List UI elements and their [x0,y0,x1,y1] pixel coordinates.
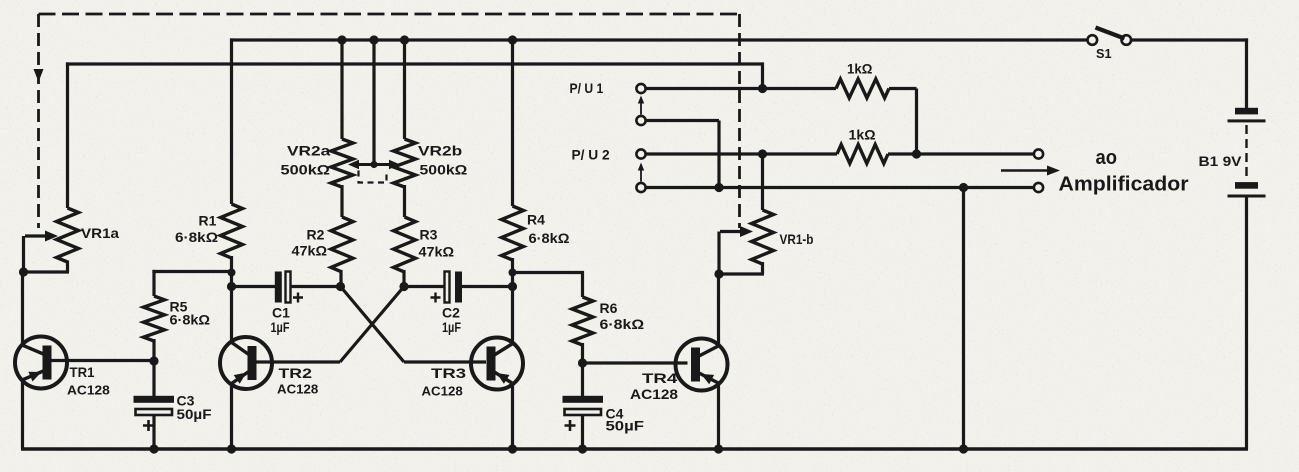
transistor TR4 [676,339,728,391]
svg-text:50µF: 50µF [177,406,212,422]
terminal S1 left contact [1088,35,1098,45]
capacitor C2 plus plate [455,272,462,303]
wire P/U2 bottom / signal return [646,186,1035,189]
capacitor C1 plus plate [275,272,282,303]
wire VR1b top lead [761,154,764,210]
node VR2 wiper rail junction [369,35,378,44]
transistor TR3 [471,338,523,390]
terminal P/U2 top [636,149,645,158]
battery B1 cell2 short plate [1235,182,1258,189]
svg-text:B1 9V: B1 9V [1199,153,1243,169]
battery B1 cell1 short plate [1235,108,1258,115]
svg-text:R2: R2 [307,227,325,243]
node P/U1 top junction [758,84,767,93]
node C1/R2 junction [336,282,345,291]
node R5/C3/TR1-base junction [149,356,158,365]
svg-text:6·8kΩ: 6·8kΩ [175,229,218,245]
svg-text:47kΩ: 47kΩ [419,244,455,260]
svg-text:AC128: AC128 [277,382,318,397]
wire VR1b bottom lead [761,262,764,274]
wire TR2 base lead [254,360,341,363]
wire C3 top lead [152,361,155,397]
potentiometer VR2a [331,139,353,187]
svg-text:500kΩ: 500kΩ [420,162,468,178]
svg-text:P/ U 2: P/ U 2 [572,147,610,163]
potentiometer VR2b [394,139,416,187]
node R6/C4/TR4-base junction [578,358,587,367]
wire R1 top lead from rail [230,38,233,204]
wire cross-couple C2 to TR2 base [340,287,404,363]
capacitor C4 plus plate [563,396,604,403]
wire C2 left lead [404,285,445,288]
svg-text:1kΩ: 1kΩ [849,127,876,143]
terminal P/U2 bottom [636,183,645,192]
node R4/R6 junction [509,269,517,277]
label C1 polarity + [293,293,303,303]
wire C1 right lead [291,285,342,288]
switch S1 lever [1096,28,1125,39]
resistor 1k upper [836,79,889,98]
wire TR3 collector vertical [511,287,514,345]
terminal S1 right contact [1122,35,1132,45]
svg-text:Amplificador: Amplificador [1059,174,1189,196]
dashed gang link left vertical [37,14,40,228]
wire TR2 emitter vertical [230,383,233,449]
node VR2a top rail junction [337,35,346,44]
wire TR1 base lead [49,359,154,362]
wire C3 bottom lead [152,415,155,449]
wire battery top lead [1245,38,1248,108]
wire TR4 emitter vertical [717,382,720,449]
resistor R1 [221,204,243,258]
output arrow [1001,169,1047,171]
wire second rail right drop to P/U 1 [761,62,764,88]
resistor R5 [144,296,165,341]
svg-text:6·8kΩ: 6·8kΩ [600,316,645,332]
wire VR2 wiper vertical [372,40,375,165]
capacitor C1 minus plate [286,272,291,303]
node P/U2 top junction (VR1b) [758,149,767,158]
svg-text:TR3: TR3 [431,365,466,381]
svg-text:TR1: TR1 [70,364,95,380]
transistor TR2 [220,337,272,389]
wire P/U1 top wire [646,87,837,90]
pickup arrow P/U1 [640,104,642,115]
node output return junction [959,183,968,192]
svg-text:R3: R3 [420,227,438,243]
label C2 polarity + [431,293,441,303]
wire TR4 base lead [583,361,688,364]
capacitor C2 minus plate [445,272,450,303]
wire VR2b top lead [403,40,406,139]
svg-text:TR2: TR2 [279,365,313,381]
wire top rail (negative supply) left part [230,38,1088,41]
wire TR3 emitter vertical [511,382,514,449]
wire R3 bottom lead [402,270,405,287]
wire TR1 collector vertical [21,272,24,346]
wire second rail [66,62,763,65]
node C1 left junction (TR2 collector) [227,282,236,291]
svg-text:VR1-b: VR1-b [780,231,814,247]
svg-text:AC128: AC128 [630,387,679,402]
svg-text:AC128: AC128 [67,383,110,398]
label C4 polarity + [565,420,576,431]
gang link arrowhead on left dashed line [34,69,44,82]
battery B1 cell2 long plate [1228,195,1266,198]
node 1k mix junction [912,149,921,158]
wire C4 top lead [581,363,584,397]
wire TR4 collector vertical [717,274,720,347]
wire C4 bottom lead [581,415,584,449]
terminal output hot [1034,149,1043,158]
node P/U returns junction [714,183,723,192]
capacitor C3 minus plate [136,409,173,415]
resistor R4 [502,206,524,260]
svg-text:VR2a: VR2a [287,143,331,159]
wire R2 bottom lead [339,270,342,287]
wire TR1 emitter vertical [21,379,24,448]
svg-text:1µF: 1µF [271,319,290,335]
wiper arrow VR1a [25,234,45,237]
wire VR1b bottom wrap [718,272,765,275]
wire P/U1 bottom drop [717,121,720,188]
svg-text:VR1a: VR1a [81,225,119,241]
node C3 ground junction [149,444,158,453]
node TR2 emitter ground junction [227,444,236,453]
wire VR1a wiper drop [22,236,25,272]
wire VR2a-R2 link [340,185,343,217]
svg-text:R6: R6 [600,300,618,316]
dashed gang link top [39,13,740,16]
wire VR1b wiper drop [717,232,720,275]
svg-text:ao: ao [1096,147,1118,169]
wire VR1a bottom lead [66,261,69,273]
svg-text:1kΩ: 1kΩ [847,61,872,77]
wire R5 top wire [152,270,231,273]
svg-text:S1: S1 [1096,46,1112,61]
node C4 ground junction [578,444,587,453]
svg-text:47kΩ: 47kΩ [292,243,328,259]
wire C2 right lead [462,285,513,288]
wiper arrow VR2b [374,163,389,166]
wire TR3 base lead [404,360,486,363]
wire 1k upper out [889,87,917,90]
battery B1 cell1 long plate [1228,119,1266,122]
potentiometer VR1b [752,210,774,264]
node TR4 emitter ground junction [714,444,723,453]
terminal P/U1 top [636,84,645,93]
wire 1k upper drop [915,89,918,155]
svg-text:VR2b: VR2b [418,143,462,159]
svg-text:P/ U 1: P/ U 1 [570,80,604,96]
resistor R2 [331,217,353,272]
wire R5 top lead [152,270,155,296]
capacitor C4 minus plate [565,409,602,415]
dashed gang box VR2 [359,171,387,183]
wire VR1a bottom wrap [22,270,69,273]
node VR2 wiper tie [370,161,377,168]
resistor R3 [394,217,416,272]
node C2/R4 junction [508,282,517,291]
resistor R6 [572,297,593,345]
node TR3 emitter ground junction [508,444,517,453]
wire R4 bottom lead [511,258,514,288]
svg-text:1µF: 1µF [442,319,461,335]
svg-text:R4: R4 [527,212,545,228]
node R3/C2 junction [399,282,408,291]
node VR1a bottom junction [19,267,28,276]
wire P/U2 top wire [646,152,838,155]
wire C1 left lead [232,285,276,288]
wire top rail right part (S1 to battery) [1131,38,1249,41]
potentiometer VR1a [57,208,79,262]
wire second rail left drop to VR1a [66,62,69,208]
node VR1b bottom junction [714,269,723,278]
wire VR2a top lead [340,40,343,139]
resistor 1k lower [837,145,888,164]
dashed gang link right vertical (to VR1b) [738,14,741,228]
node R4 top rail junction [508,35,517,44]
svg-text:AC128: AC128 [422,384,463,399]
pickup arrow P/U2 [640,171,642,182]
wire R6 top wire [513,271,583,274]
wire R6 bottom lead [581,343,584,363]
wire mixed output [888,152,1034,155]
wire bottom rail (ground return) [21,447,1248,451]
wiper arrow VR2a [359,163,374,166]
svg-text:500kΩ: 500kΩ [281,162,330,178]
wire cross-couple C1 to TR3 base [341,287,405,363]
svg-text:50µF: 50µF [606,418,645,434]
label C3 polarity + [143,420,154,431]
wire TR2 collector vertical [230,287,233,344]
svg-text:6·8kΩ: 6·8kΩ [529,230,570,246]
battery B1 internal dashed link [1245,125,1247,180]
terminal P/U1 bottom [636,116,645,125]
capacitor C3 plus plate [134,396,175,403]
wire P/U1 bottom wire [646,119,720,122]
svg-text:R1: R1 [199,213,217,229]
wire output return ground drop [962,188,965,450]
node R1/R5 junction [228,269,236,277]
svg-text:TR4: TR4 [642,370,678,386]
node VR2b top rail junction [400,35,409,44]
wire R4 top lead [511,40,514,206]
wire R5 bottom lead [152,339,155,361]
wire battery bottom lead [1245,198,1248,450]
transistor TR1 [15,337,67,389]
wire R6 top lead [581,271,584,297]
wiper arrow VR1b [720,230,740,233]
svg-text:6·8kΩ: 6·8kΩ [170,312,211,328]
node output ground junction [959,444,968,453]
wire R1 bottom lead [230,256,233,288]
wire VR2b-R3 link [403,185,406,217]
terminal output return [1034,183,1043,192]
